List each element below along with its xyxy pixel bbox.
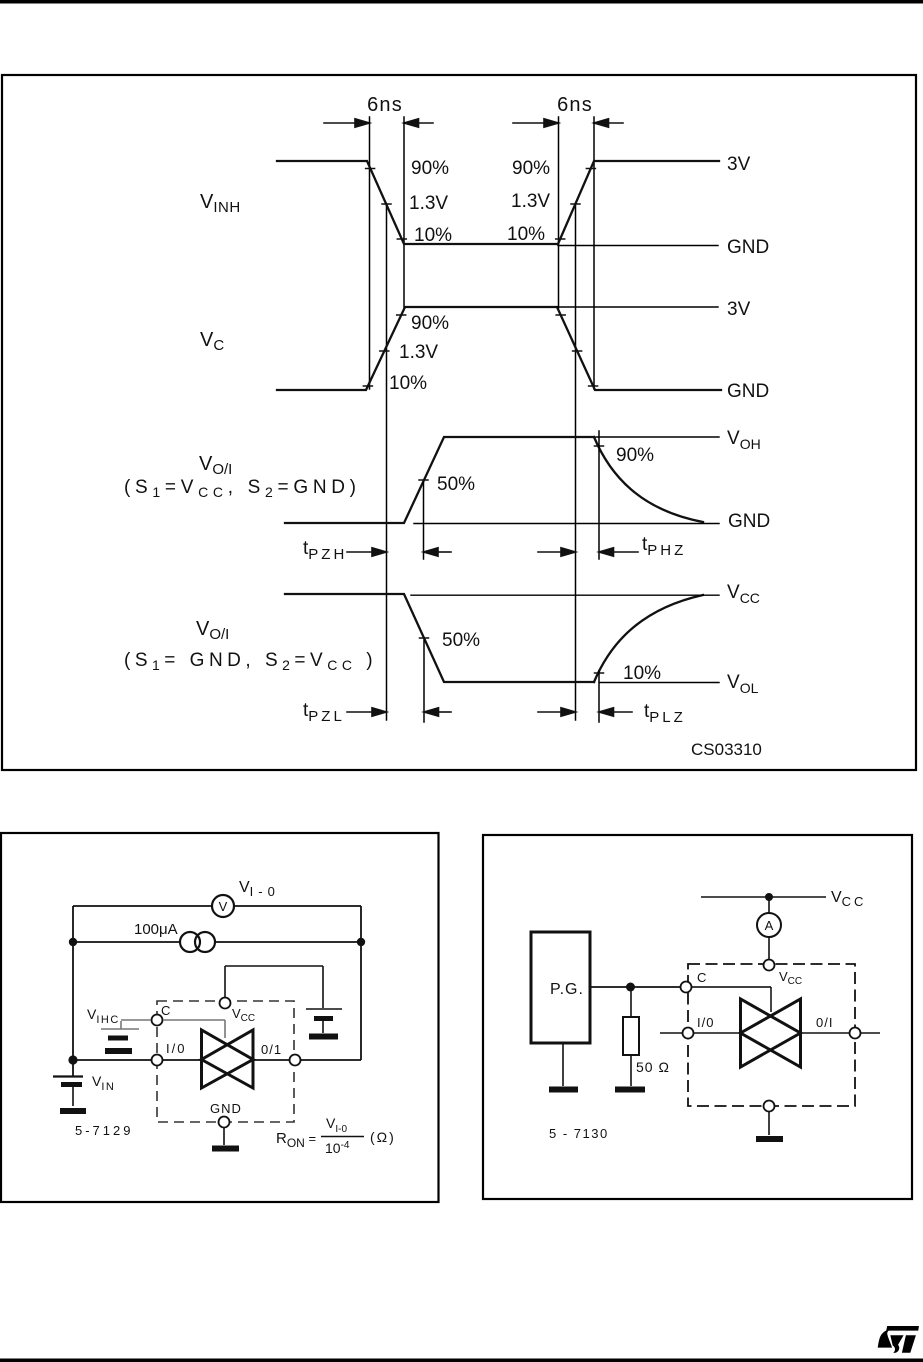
svg-text:(S1=VCC, S2=GND): (S1=VCC, S2=GND) <box>124 477 361 500</box>
svg-text:100μA: 100μA <box>134 921 178 938</box>
svg-text:5-7129: 5-7129 <box>75 1123 133 1138</box>
svg-text:GND: GND <box>210 1101 242 1116</box>
svg-text:VCC: VCC <box>779 969 802 987</box>
svg-text:10%: 10% <box>623 663 661 684</box>
svg-text:10%: 10% <box>389 373 427 394</box>
svg-text:90%: 90% <box>512 158 550 179</box>
svg-text:VI-0: VI-0 <box>239 879 280 899</box>
svg-text:1.3V: 1.3V <box>409 193 448 214</box>
svg-text:50%: 50% <box>442 630 480 651</box>
svg-text:90%: 90% <box>616 445 654 466</box>
svg-text:tPZH: tPZH <box>303 538 347 563</box>
svg-text:50 Ω: 50 Ω <box>636 1059 670 1075</box>
svg-text:1.3V: 1.3V <box>511 191 550 212</box>
svg-text:VIN: VIN <box>92 1073 115 1093</box>
svg-text:VOL: VOL <box>727 672 759 696</box>
svg-text:P.G.: P.G. <box>550 981 584 998</box>
svg-text:50%: 50% <box>437 474 475 495</box>
svg-text:tPHZ: tPHZ <box>642 534 686 559</box>
svg-text:tPZL: tPZL <box>303 700 345 725</box>
svg-text:I/0: I/0 <box>166 1041 186 1056</box>
svg-text:VC: VC <box>200 329 224 354</box>
svg-text:6ns: 6ns <box>367 94 403 116</box>
svg-text:I/0: I/0 <box>697 1015 714 1030</box>
svg-text:10-4: 10-4 <box>325 1140 350 1156</box>
svg-text:C: C <box>161 1003 170 1018</box>
svg-text:3V: 3V <box>727 154 751 175</box>
svg-text:A: A <box>765 918 774 933</box>
svg-text:CS03310: CS03310 <box>691 740 762 759</box>
svg-text:(S1= GND, S2=VCC ): (S1= GND, S2=VCC ) <box>124 650 377 673</box>
svg-text:VI-0: VI-0 <box>326 1115 347 1135</box>
svg-text:3V: 3V <box>727 299 751 320</box>
svg-text:VCC: VCC <box>232 1006 255 1024</box>
svg-text:(Ω): (Ω) <box>370 1129 396 1145</box>
svg-text:VINH: VINH <box>200 191 241 216</box>
svg-text:GND: GND <box>727 381 769 402</box>
svg-text:VCC: VCC <box>727 582 760 606</box>
svg-text:VO/I: VO/I <box>196 618 229 643</box>
svg-text:10%: 10% <box>414 225 452 246</box>
svg-text:C: C <box>697 970 706 985</box>
svg-text:GND: GND <box>727 237 769 258</box>
svg-text:90%: 90% <box>411 158 449 179</box>
svg-text:0/I: 0/I <box>816 1015 833 1030</box>
svg-text:10%: 10% <box>507 224 545 245</box>
svg-text:0/1: 0/1 <box>261 1042 282 1057</box>
svg-text:GND: GND <box>728 511 770 532</box>
svg-text:RON =: RON = <box>276 1130 316 1150</box>
svg-text:tPLZ: tPLZ <box>644 701 686 726</box>
svg-text:VCC: VCC <box>831 889 866 909</box>
svg-text:VOH: VOH <box>727 428 761 452</box>
svg-text:6ns: 6ns <box>557 94 593 116</box>
svg-text:5 - 7130: 5 - 7130 <box>549 1126 609 1141</box>
svg-text:1.3V: 1.3V <box>399 342 438 363</box>
svg-text:V: V <box>219 899 228 914</box>
svg-text:90%: 90% <box>411 313 449 334</box>
svg-text:VIHC: VIHC <box>87 1006 120 1026</box>
svg-text:VO/I: VO/I <box>199 453 232 478</box>
